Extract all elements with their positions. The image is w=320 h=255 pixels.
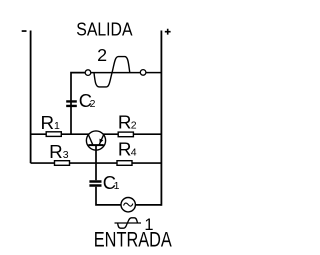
svg-text:4: 4 [131,147,137,159]
input waveform symbol line [115,222,142,224]
wire C1 to bottom row [96,187,121,205]
node output terminal left (open circle) [85,70,91,76]
transistor Q1 base bar [88,144,103,146]
wire right rail [160,31,162,206]
wire AC source to right rail [135,204,161,206]
AC source sine symbol [124,203,133,206]
svg-text:R: R [49,141,63,162]
positive terminal marker + [165,29,171,35]
wire output line between terminals [91,72,141,74]
wire R3/R4 row (left rail to right rail) [31,162,162,164]
svg-text:R: R [118,139,132,160]
svg-text:1: 1 [114,180,120,192]
wire base lead down [95,146,97,180]
transistor Q1 right diagonal (emitter) [99,134,104,145]
capacitor C1 plates [89,182,101,186]
svg-text:2: 2 [90,98,96,110]
svg-text:1: 1 [54,120,60,132]
resistor R2 [118,132,133,137]
wire output line to right rail [146,72,162,74]
resistor R4 [117,161,132,166]
transistor Q1 emitter arrow [100,139,104,144]
node output terminal right (open circle) [140,70,146,76]
resistor R3 [55,161,70,166]
svg-text:ENTRADA: ENTRADA [94,229,172,250]
wire left rail [30,31,32,164]
AC source circle [121,198,135,212]
transistor Q1 left diagonal (collector) [88,134,93,145]
transistor Q1 body circle [86,131,105,150]
output sine waveform 2 [94,57,130,87]
negative terminal marker - [22,30,27,32]
svg-text:2: 2 [131,119,137,131]
svg-text:R: R [41,112,55,133]
svg-text:2: 2 [97,45,107,65]
resistor R1 [46,132,61,137]
svg-text:3: 3 [63,149,69,161]
wire R2 row (transistor to right rail) [103,133,161,135]
wire R1 row (left rail to transistor) [31,133,89,135]
svg-text:R: R [118,111,132,132]
capacitor C2 plates [66,101,77,106]
wire output corner (down to C2) [71,73,85,135]
input waveform sine [118,218,138,228]
svg-text:SALIDA: SALIDA [76,19,133,40]
